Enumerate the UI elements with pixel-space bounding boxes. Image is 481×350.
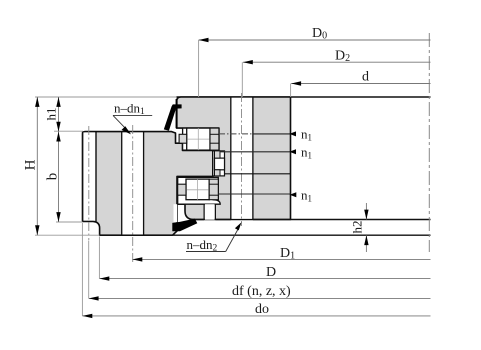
H/h1 extension line at top bbox=[35, 96, 177, 98]
dimension D bbox=[99, 278, 430, 280]
svg-text:h1: h1 bbox=[44, 108, 59, 121]
upper seal (black) bbox=[164, 104, 182, 130]
svg-text:H: H bbox=[23, 159, 39, 170]
right ring bolt hole dn2 (white band) bbox=[232, 98, 253, 219]
dimension d bbox=[291, 83, 430, 85]
mounting surface line right of ring bottom bbox=[291, 219, 431, 221]
radial roller bbox=[215, 158, 225, 170]
b extension line bottom bbox=[56, 221, 83, 223]
gear tooth white band bbox=[83, 132, 95, 220]
left ring (geared outer ring) body bbox=[83, 132, 213, 236]
mounting surface top line (right ring top, extends to axis) bbox=[177, 96, 431, 98]
H extension line bottom bbox=[35, 234, 100, 236]
svg-text:d: d bbox=[362, 70, 369, 85]
plug hole n1 row A bbox=[219, 133, 253, 135]
svg-text:df (n, z, x): df (n, z, x) bbox=[232, 284, 291, 299]
lip bottom surface line to axis bbox=[100, 234, 431, 236]
right ring (inner ring) body bbox=[177, 97, 291, 220]
slot left of left-ring edge bbox=[174, 204, 178, 222]
lower roller bbox=[186, 179, 209, 200]
dimension D1 bbox=[132, 258, 430, 260]
split line of right ring bbox=[225, 173, 291, 175]
gear pitch line (dash-dot) bbox=[88, 126, 90, 240]
upper axial roller cavity bbox=[183, 128, 219, 150]
radial cage bars bbox=[215, 151, 221, 158]
bottom slot in right ring bbox=[205, 204, 215, 220]
right ring left edge thick segment bbox=[176, 99, 178, 128]
dimension df bbox=[89, 297, 431, 299]
dimension b bbox=[58, 132, 60, 222]
radial roller cavity bbox=[213, 151, 225, 176]
right ring bottom edge segments bbox=[190, 219, 204, 221]
plug hole n1 row B bbox=[221, 151, 291, 153]
left ring bolt hole dn1 (white band) bbox=[122, 132, 142, 234]
upper cage bars bbox=[179, 134, 187, 143]
lower seal (black) bbox=[172, 219, 197, 232]
dimension H bbox=[36, 97, 38, 235]
plug hole n1 row D bbox=[218, 193, 290, 195]
axis of rotation (dash-dot centerline) bbox=[428, 33, 430, 252]
svg-text:h2: h2 bbox=[350, 221, 365, 234]
dimension do bbox=[82, 315, 430, 317]
gear tooth tip line bbox=[82, 132, 84, 221]
dimension h2 bbox=[365, 203, 367, 220]
hole dn1 centerline bbox=[132, 125, 134, 262]
dimension D0 bbox=[199, 39, 431, 41]
gear root line bbox=[95, 132, 97, 222]
svg-text:do: do bbox=[255, 302, 269, 317]
n1 arrows and labels bbox=[289, 131, 296, 136]
lower axial roller cavity bbox=[178, 177, 221, 204]
dimension h1 bbox=[58, 97, 60, 132]
svg-text:b: b bbox=[45, 173, 61, 181]
upper roller bbox=[187, 128, 210, 150]
dimension D2 bbox=[243, 61, 431, 63]
svg-text:D: D bbox=[266, 265, 276, 280]
lower cage bars bbox=[178, 184, 186, 195]
h1/b extension line at left ring top bbox=[54, 130, 83, 132]
hole dn2 centerline bbox=[241, 93, 243, 226]
